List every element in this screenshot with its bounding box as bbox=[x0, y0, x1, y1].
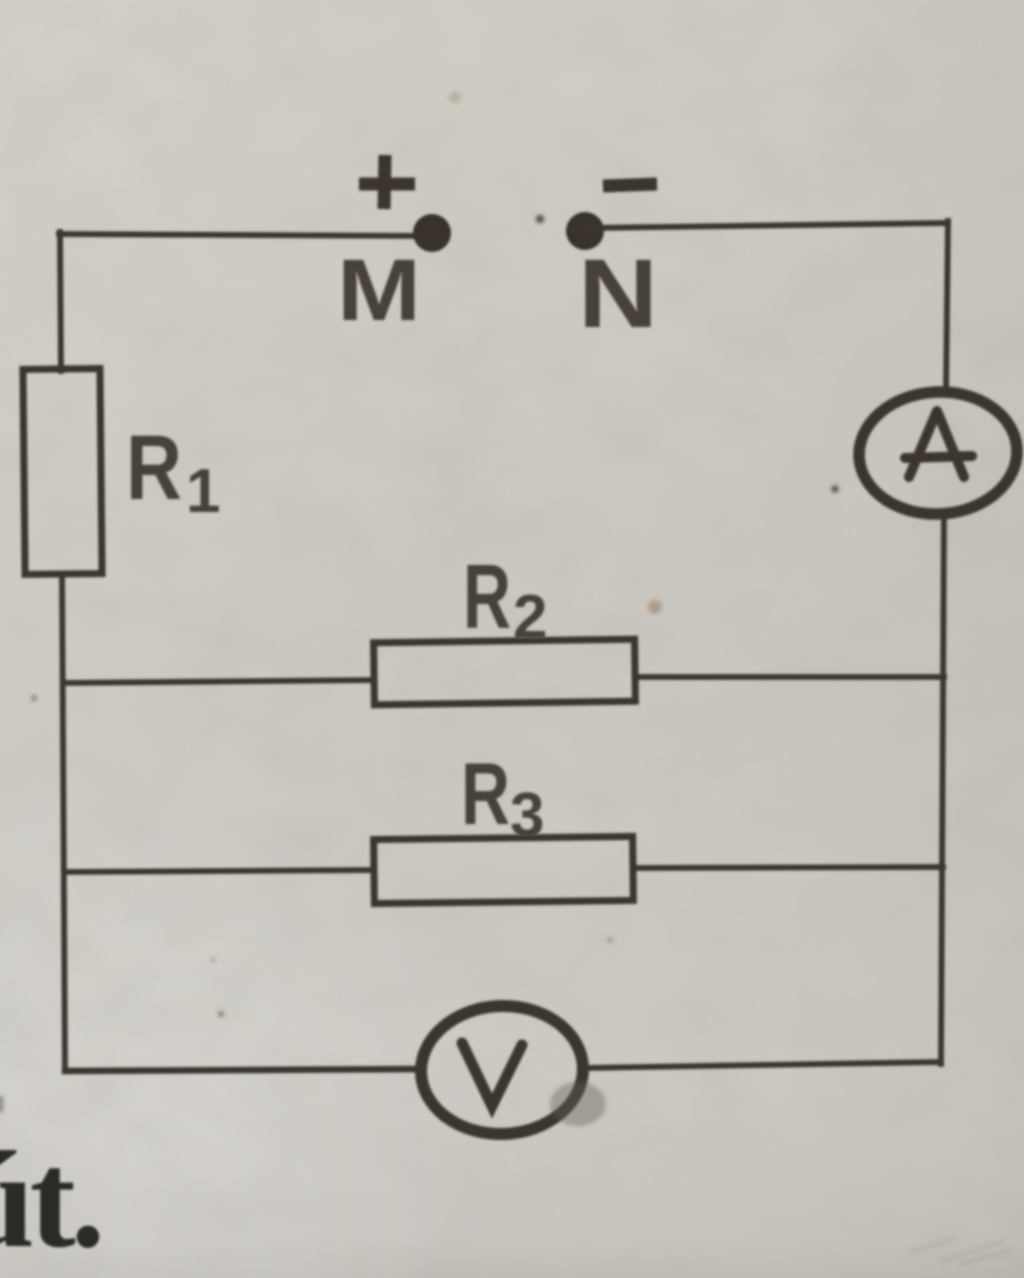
wire: voltmeter to bottom right corner bbox=[583, 1062, 941, 1068]
wire: R3 row left bbox=[64, 870, 374, 872]
voltmeter letter V bbox=[462, 1043, 522, 1106]
wire: right vertical above ammeter bbox=[946, 221, 948, 393]
cropped text "út." bottom left bbox=[0, 1123, 100, 1276]
svg-text:1: 1 bbox=[186, 457, 220, 526]
text labels layer bbox=[126, 239, 658, 850]
resistor R3 bbox=[374, 836, 634, 903]
node M dot bbox=[413, 214, 451, 252]
wire: left vertical below R1 bbox=[62, 574, 65, 1071]
voltmeter U2 circle bbox=[419, 1003, 585, 1137]
wire: R2 row right bbox=[635, 674, 944, 680]
wire: top left horizontal (node M lead) bbox=[59, 234, 428, 236]
wire: bottom left to voltmeter bbox=[65, 1069, 421, 1071]
minus sign at N bbox=[603, 184, 657, 186]
svg-text:2: 2 bbox=[513, 583, 547, 652]
ammeter letter A bbox=[905, 411, 972, 477]
svg-text:R: R bbox=[126, 417, 182, 519]
ink layer bbox=[23, 155, 1020, 1137]
resistor R2 bbox=[374, 639, 636, 705]
svg-text:M: M bbox=[337, 242, 421, 339]
ammeter U1 circle bbox=[856, 388, 1020, 518]
wire: R2 row left bbox=[63, 680, 374, 683]
svg-text:3: 3 bbox=[510, 781, 544, 850]
wire: top right horizontal (node N lead) bbox=[588, 223, 948, 228]
resistor R1 bbox=[23, 369, 102, 575]
node N dot bbox=[566, 212, 604, 250]
wire: R3 row right bbox=[633, 867, 943, 868]
svg-text:R: R bbox=[461, 744, 510, 843]
svg-text:N: N bbox=[578, 239, 658, 348]
svg-text:út.: út. bbox=[0, 1123, 100, 1276]
wire: right vertical below ammeter bbox=[941, 515, 944, 1064]
svg-text:R: R bbox=[463, 547, 511, 648]
wire: left vertical above R1 bbox=[60, 232, 61, 371]
plus sign at M bbox=[359, 155, 415, 209]
